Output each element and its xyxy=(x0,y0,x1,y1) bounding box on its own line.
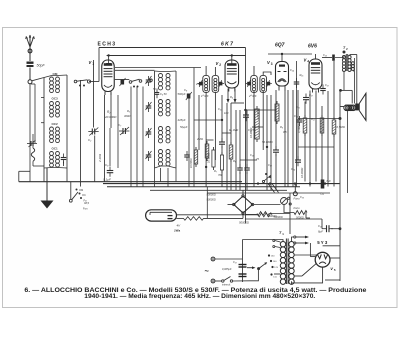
label OC1 xyxy=(52,147,59,151)
wire lamp to bridge bottom xyxy=(204,214,244,218)
inductor L4 OC1 winding xyxy=(50,152,60,168)
svg-text:2: 2 xyxy=(219,63,221,67)
label bridge left b xyxy=(207,198,216,202)
label smudge f xyxy=(214,169,223,177)
inductor T3 IF1 secondary can xyxy=(212,75,219,92)
wire osc frame left xyxy=(154,71,156,168)
label MF2 xyxy=(248,94,257,98)
junction dots bus xyxy=(257,182,326,184)
svg-text:8μF: 8μF xyxy=(327,180,332,183)
wire top bus left drop xyxy=(98,48,100,82)
wire coil bottom link xyxy=(44,167,67,170)
wire link b xyxy=(222,132,231,134)
wire mid v1 xyxy=(221,95,223,142)
wire 5Y3 top corner xyxy=(323,245,340,247)
svg-text:0,5MΩ: 0,5MΩ xyxy=(337,125,346,129)
wire right v2 xyxy=(333,134,335,187)
switch S3 mains xyxy=(222,277,250,283)
wire T2 primary bottom xyxy=(343,71,345,91)
svg-text:6Q7: 6Q7 xyxy=(275,43,285,49)
label selector volts xyxy=(271,256,279,279)
wire T1 left tap2 xyxy=(273,246,281,248)
label 6Q7 xyxy=(275,43,285,49)
capacitor C13 xyxy=(303,93,314,104)
svg-text:0,1μF: 0,1μF xyxy=(103,178,112,182)
svg-text:50000Ω: 50000Ω xyxy=(267,214,277,218)
label smudge b xyxy=(229,128,238,132)
wire antenna terminal drop xyxy=(29,84,31,182)
wire bridge left stub xyxy=(228,204,233,206)
capacitor C26 8uF xyxy=(318,224,333,234)
wire switch drop xyxy=(70,182,72,200)
label smudge a xyxy=(218,107,229,115)
arrow T1 HT1 xyxy=(294,236,309,239)
svg-text:50000Ω: 50000Ω xyxy=(239,221,250,225)
svg-text:C₂₉: C₂₉ xyxy=(320,193,324,196)
inductor L2 OC3 winding xyxy=(50,102,60,118)
wire mid v2 xyxy=(221,146,223,187)
trimmer capacitor C6b xyxy=(146,151,152,161)
wire T1 top right xyxy=(292,237,295,242)
label MF1 xyxy=(201,94,209,98)
wire coil stub b xyxy=(41,122,44,124)
svg-text:445pF: 445pF xyxy=(178,118,186,122)
wire C26 left xyxy=(321,219,324,229)
svg-text:0,5: 0,5 xyxy=(283,130,287,134)
wire mains bottom xyxy=(215,280,222,282)
label interruttore xyxy=(222,284,231,287)
wire vertical VL8 xyxy=(167,168,169,187)
svg-text:C₂₁: C₂₁ xyxy=(296,105,300,109)
wire IFT1 drop right xyxy=(214,92,216,160)
svg-text:OC: OC xyxy=(82,193,86,197)
trimmer capacitor C6 xyxy=(146,128,152,138)
rectifier bridge diamond xyxy=(233,195,254,214)
junction dot V1 cap xyxy=(107,54,109,56)
wire vertical VL5 xyxy=(142,87,144,187)
label bridge left a xyxy=(207,193,216,197)
svg-text:E C H 3: E C H 3 xyxy=(98,42,116,48)
wire mid v11 xyxy=(292,90,294,187)
pilot lamp LP1 ballast tube xyxy=(146,210,177,221)
svg-text:Fono: Fono xyxy=(294,206,301,210)
svg-text:C₂₇: C₂₇ xyxy=(233,260,237,264)
wire V1 anode drop xyxy=(110,93,112,129)
label 220 ohm vertical xyxy=(98,153,102,163)
label OM xyxy=(53,72,58,76)
label 445pF xyxy=(178,118,186,122)
wire T1 top left xyxy=(243,240,284,242)
wire coil right drop xyxy=(66,168,68,182)
wire right v4 xyxy=(321,106,323,182)
svg-text:~: ~ xyxy=(205,267,210,276)
label 0.25 MOhm xyxy=(256,110,260,120)
capacitor C14 xyxy=(291,156,301,171)
wire T1 tap3 xyxy=(294,264,316,276)
label R9 xyxy=(274,215,283,219)
wire mid v6 xyxy=(246,110,248,190)
label R12 xyxy=(267,214,277,218)
label R2 20000 ohm xyxy=(104,110,117,119)
wire right v5 xyxy=(315,91,317,182)
wire right v3 xyxy=(327,91,329,187)
resistor R9 50000 ohm xyxy=(258,213,272,217)
inductor T3 IF1 primary can xyxy=(203,75,210,92)
label smudge i xyxy=(160,92,167,96)
svg-text:R₉: R₉ xyxy=(280,125,283,129)
transformer T2 core xyxy=(346,54,347,71)
svg-text:50000Ω: 50000Ω xyxy=(207,193,216,197)
svg-text:500pF: 500pF xyxy=(178,92,186,96)
label smudge d xyxy=(280,125,287,134)
resistor R8 tall xyxy=(275,101,279,124)
wire vertical VL1 xyxy=(109,128,111,166)
capacitor C16 xyxy=(243,111,249,121)
bus wire y183 xyxy=(103,183,340,185)
voltage selector SV1 xyxy=(259,254,274,275)
wire anode line y70 xyxy=(115,69,155,71)
wire vertical VL6 xyxy=(154,168,156,187)
wire osc top link xyxy=(155,70,177,73)
junction dot antenna xyxy=(28,49,32,53)
svg-text:100: 100 xyxy=(224,111,229,115)
svg-text:6V6: 6V6 xyxy=(308,44,317,50)
resistor R6b xyxy=(229,142,233,162)
wire selector bottom xyxy=(250,270,258,281)
wire coil frame right xyxy=(66,75,68,168)
svg-text:2 20Ω: 2 20Ω xyxy=(98,153,102,163)
capacitor C9b xyxy=(153,88,159,98)
speaker field coil xyxy=(344,105,356,111)
wire mid h3 xyxy=(231,102,244,104)
capacitor C27 mains upper xyxy=(239,265,247,268)
svg-text:C₆ 50: C₆ 50 xyxy=(160,92,167,96)
wire IFT1 drop left xyxy=(205,92,207,186)
wire mid x285 xyxy=(284,90,286,187)
trimmer capacitor C11b xyxy=(267,80,272,87)
wire V3 top cap lead xyxy=(281,54,283,62)
wire vertical VL2 xyxy=(117,95,119,168)
switch S4 fono contacts xyxy=(262,173,271,183)
wire T2 secondary to voice coil right xyxy=(356,55,358,104)
svg-text:2MΩ: 2MΩ xyxy=(196,137,204,141)
wire vertical x104 xyxy=(104,95,106,182)
wire fono feeds xyxy=(268,184,279,193)
wire osc bottom link xyxy=(155,166,177,168)
resistor R13 lamp series xyxy=(177,217,204,221)
wire V4 plate to T2 xyxy=(322,51,346,58)
tube V4 6V6 xyxy=(309,59,322,93)
label T2 xyxy=(343,46,348,51)
label 2 MOhm xyxy=(196,137,204,141)
label C27 xyxy=(222,260,237,271)
wire V1 top cap lead xyxy=(106,56,111,64)
svg-text:3: 3 xyxy=(271,62,273,66)
capacitor C28 mains lower xyxy=(239,274,247,277)
wire coil frame left xyxy=(43,78,45,169)
wire pot drop xyxy=(284,205,294,213)
wire bottom h218 xyxy=(306,213,310,219)
wire V4 top lead xyxy=(315,54,317,59)
wire 5Y3 right lead xyxy=(330,257,340,259)
label R14 vertical xyxy=(190,158,193,168)
transformer T1 primary winding xyxy=(280,242,285,285)
trimmer capacitor C10b xyxy=(219,80,224,87)
label smudge k xyxy=(180,125,188,129)
svg-text:48,5: 48,5 xyxy=(84,201,90,205)
svg-text:C₂₄: C₂₄ xyxy=(290,68,294,72)
wire V2 top cap lead xyxy=(231,56,233,64)
capacitor C28 bus xyxy=(320,180,331,196)
label V1 xyxy=(89,60,95,66)
wire vertical VL7 xyxy=(160,168,162,182)
wire vertical VL10 xyxy=(188,99,190,187)
label C30 smudge xyxy=(300,195,305,199)
wire vertical VL9 xyxy=(175,168,177,182)
svg-text:OC3: OC3 xyxy=(52,97,59,101)
capacitor C30 xyxy=(184,151,190,161)
wire ECH3 plate top bus xyxy=(99,47,246,49)
wire T1 bottom lead xyxy=(291,281,293,284)
variable capacitor C8 tuning xyxy=(184,88,192,100)
wire mains top xyxy=(215,258,243,260)
svg-text:OC2: OC2 xyxy=(52,122,59,126)
switch S2 wave change xyxy=(69,188,87,203)
variable capacitor C2b tuning xyxy=(88,128,99,143)
trimmer capacitor C5 xyxy=(146,102,152,112)
svg-text:C₂₇: C₂₇ xyxy=(325,83,329,87)
trimmer capacitor C7b dark xyxy=(120,78,126,86)
bus wire y181 xyxy=(19,181,242,183)
resistor R5 xyxy=(205,141,209,161)
resistor R3 field bleeder xyxy=(332,117,336,137)
label R16 xyxy=(300,73,305,77)
label smudge l xyxy=(296,105,300,109)
label T1 xyxy=(279,231,284,236)
arrow V2 suppressor xyxy=(234,89,237,104)
capacitor C18 xyxy=(237,164,243,174)
wire field coil top lead xyxy=(341,90,353,103)
arrow mains earth xyxy=(247,266,256,269)
wire mid h2 xyxy=(244,109,276,111)
label R5 vertical xyxy=(207,153,211,163)
svg-text:1Wa: 1Wa xyxy=(174,229,180,233)
arrow T1 HT2 xyxy=(294,242,309,245)
capacitor C2 padder xyxy=(61,154,67,167)
svg-text:0,005μF: 0,005μF xyxy=(222,267,232,271)
label V5 xyxy=(330,266,336,272)
svg-text:R₃: R₃ xyxy=(127,109,130,113)
svg-text:Fon: Fon xyxy=(83,207,88,211)
resistor R15 zig xyxy=(212,147,215,170)
svg-text:R₅ 1MΩ: R₅ 1MΩ xyxy=(229,128,238,132)
junction dot V3 cap xyxy=(281,53,283,55)
wire v290 xyxy=(289,193,291,234)
label V3 xyxy=(267,60,273,66)
wire vertical VL3 xyxy=(130,87,132,187)
resistor R7 tall xyxy=(255,106,259,142)
capacitor C9 0.1uF xyxy=(103,163,113,182)
wire lamp feed drop xyxy=(206,187,208,219)
inductor L5 osc 1 xyxy=(158,74,170,90)
svg-text:25: 25 xyxy=(195,82,199,86)
wire IFT2 top right xyxy=(263,72,271,75)
terminal ring P2 xyxy=(293,184,297,196)
wire speaker return drop xyxy=(339,90,341,281)
wire antenna return x35 xyxy=(31,84,35,143)
svg-text:1: 1 xyxy=(92,62,94,66)
junction dot selector pivot xyxy=(257,267,260,270)
switch S1 wave contacts xyxy=(74,80,94,87)
wire right v1 xyxy=(333,61,335,120)
label smudge e xyxy=(250,153,259,161)
svg-text:300Ω: 300Ω xyxy=(124,114,130,118)
wire right v6 xyxy=(309,91,311,187)
svg-text:OC1: OC1 xyxy=(52,147,59,151)
wire link a xyxy=(206,139,213,141)
wire right v8 xyxy=(297,90,299,160)
wire coil stub a xyxy=(41,97,44,99)
wire coil left drop xyxy=(43,168,45,182)
svg-text:1940-1941. — Media frequenza:: 1940-1941. — Media frequenza: 465 kHz. —… xyxy=(84,294,315,300)
wire link d xyxy=(240,159,257,161)
svg-text:C₂₃: C₂₃ xyxy=(323,53,327,57)
transformer T2 secondary xyxy=(348,56,351,72)
wire mid v8 xyxy=(275,90,277,150)
wire mid v10 xyxy=(287,90,289,187)
svg-text:2ª MF: 2ª MF xyxy=(248,94,257,98)
svg-text:V: V xyxy=(330,266,333,271)
inductor L3 OC2 winding xyxy=(50,127,60,143)
wire V2 screen drop xyxy=(245,48,247,224)
wire trimmer stub xyxy=(33,134,44,166)
capacitor C12 coupling xyxy=(332,55,335,61)
trimmer capacitor C4 xyxy=(146,76,152,86)
label OC2 xyxy=(52,122,59,126)
wire mid v3 xyxy=(230,103,232,145)
ground xyxy=(41,168,54,209)
junction dot field top xyxy=(339,89,342,92)
capacitor C19b xyxy=(294,114,302,126)
inductor L7 osc 3 xyxy=(158,127,170,143)
wire IFT2 drop left xyxy=(253,91,255,187)
wire mid v5 xyxy=(239,110,241,190)
wire right h147 xyxy=(298,146,334,148)
label 6V6 xyxy=(308,44,317,50)
label ECH3 xyxy=(98,42,116,48)
svg-text:50.000Ω: 50.000Ω xyxy=(262,140,274,144)
label 50000 ohm mid xyxy=(262,140,274,144)
speaker cone xyxy=(359,93,366,120)
svg-text:5 Y 3: 5 Y 3 xyxy=(317,240,328,245)
inductor L6 osc 2 xyxy=(158,100,170,116)
wire osc frame right xyxy=(175,71,177,168)
wire mid x271 xyxy=(270,95,272,190)
capacitor C22 xyxy=(320,83,329,95)
wire antenna switch arm xyxy=(32,78,44,81)
variable capacitor C7 tuning xyxy=(118,123,129,135)
trimmer capacitor C10a xyxy=(198,80,203,87)
label R3 xyxy=(337,125,346,129)
wire anode line y67 xyxy=(115,67,201,69)
wire h223 xyxy=(245,218,322,220)
wire T1 left tap1 xyxy=(273,240,281,243)
capacitor C18b xyxy=(244,164,250,174)
svg-text:20.000Ω: 20.000Ω xyxy=(104,115,117,119)
svg-text:0,25MΩ: 0,25MΩ xyxy=(256,110,260,120)
wire vertical VL11 xyxy=(193,68,195,187)
antenna xyxy=(26,35,35,61)
wire bridge right xyxy=(254,204,281,206)
wire IFT1 top right xyxy=(214,67,216,75)
wire link c xyxy=(252,126,263,128)
wire IFT2 drop right xyxy=(262,91,264,150)
svg-text:6 K 7: 6 K 7 xyxy=(221,42,233,48)
wire field coil bottom lead xyxy=(347,111,349,193)
capacitor C17 xyxy=(273,146,279,156)
svg-text:700: 700 xyxy=(218,173,223,177)
svg-text:8μF: 8μF xyxy=(318,230,323,234)
tube V1 ECH3 xyxy=(102,60,115,95)
arrow V2 cathode xyxy=(227,89,230,104)
label smudge o xyxy=(230,95,233,99)
wire T1 tap2 xyxy=(294,254,316,256)
svg-text:interrutt.: interrutt. xyxy=(222,284,231,287)
svg-text:OM: OM xyxy=(79,188,83,192)
junction dots mid xyxy=(205,109,268,168)
resistor R11 xyxy=(320,115,324,136)
wire mid v9 xyxy=(275,154,277,190)
wire right v7 xyxy=(304,102,306,182)
wire vertical x94 lower xyxy=(94,136,96,182)
wire vertical x80 xyxy=(80,80,82,187)
wire mid h1 xyxy=(194,119,222,121)
wire bridge top up xyxy=(242,190,244,195)
label 6K7 xyxy=(221,42,233,48)
wire speaker return h118 xyxy=(298,118,340,120)
bus wire y190 xyxy=(150,189,287,191)
inductor L9 choke xyxy=(31,148,34,161)
switch S1b osc contacts xyxy=(129,79,152,88)
tube V3 6Q7 xyxy=(276,62,289,91)
wire 5Y3 bottom xyxy=(292,267,323,283)
label lamp 4V xyxy=(174,224,181,233)
caption line 2 xyxy=(84,294,315,300)
svg-text:50μμF: 50μμF xyxy=(180,125,188,129)
wire V1 to switch S1b xyxy=(115,79,130,81)
inductor L1 OM winding xyxy=(50,77,60,93)
label smudge h xyxy=(268,163,273,167)
wire IFT2 top left xyxy=(253,66,255,75)
wire mid v7 xyxy=(266,95,268,190)
wire mid x199 xyxy=(198,95,200,150)
tube V2 6K7 xyxy=(225,60,239,92)
label smudge g xyxy=(233,159,237,163)
label smudge j xyxy=(124,109,130,118)
wire C26 right xyxy=(331,228,340,230)
svg-text:10.000Ω: 10.000Ω xyxy=(190,158,193,168)
svg-text:50000Ω: 50000Ω xyxy=(207,198,216,202)
inductor L8 osc 4 xyxy=(158,150,170,166)
wire vertical x93 xyxy=(93,60,95,128)
trimmer capacitor C11a xyxy=(246,80,251,87)
resistor R6 zigzag xyxy=(220,152,223,173)
svg-text:50pF: 50pF xyxy=(37,64,46,68)
label R7 vertical xyxy=(249,128,253,138)
capacitor C24 xyxy=(290,68,299,88)
switch S5 fono contacts xyxy=(288,197,301,211)
label 5Y3 xyxy=(317,240,328,245)
